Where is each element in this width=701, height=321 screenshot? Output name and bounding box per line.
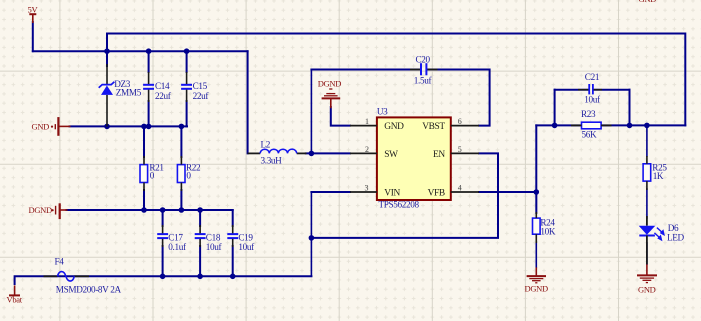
svg-text:0: 0: [186, 170, 191, 180]
svg-text:10uf: 10uf: [238, 242, 255, 252]
power port DGND (mid, earth style up): [322, 89, 341, 108]
wire: DZ3 top lead: [106, 51, 108, 66]
svg-text:C14: C14: [155, 81, 170, 91]
wire: R22 top lead: [180, 126, 182, 157]
wire: GND left rail: [70, 125, 188, 127]
power port GND (bottom right, earth style): [637, 264, 657, 282]
svg-text:5: 5: [458, 145, 462, 154]
wire: C15 top lead: [186, 51, 188, 72]
wire: C21 left vertical: [554, 90, 556, 126]
wire: DGND mid to pin1: [331, 107, 350, 126]
power port Vbat: [9, 285, 20, 295]
svg-text:56K: 56K: [582, 129, 597, 139]
node: 5V rail junctions: [104, 48, 110, 54]
svg-text:DGND: DGND: [318, 79, 342, 89]
svg-text:C20: C20: [416, 54, 431, 64]
pin 2 SW: [350, 152, 377, 154]
svg-text:ZMM5: ZMM5: [116, 88, 142, 98]
svg-text:SW: SW: [384, 150, 398, 160]
wire: R24 bottom lead: [535, 242, 537, 267]
capacitor C17: [157, 234, 168, 238]
wire: bottom Vbat rail: [15, 276, 312, 284]
wire: top output rail: [107, 34, 685, 126]
svg-text:GND: GND: [638, 284, 656, 294]
wire: C17 top lead: [162, 210, 164, 226]
node: VFB junction: [534, 189, 540, 195]
wire: R21 bottom lead: [143, 190, 145, 210]
svg-text:R23: R23: [581, 109, 596, 119]
wire: C17 bottom lead: [162, 246, 164, 276]
wire: C20 rail left: [311, 69, 420, 71]
power port 5V: [29, 14, 36, 23]
wire: C19 bottom lead: [232, 246, 234, 276]
svg-text:EN: EN: [433, 150, 445, 160]
resistor R25: [643, 164, 651, 181]
capacitor C19: [227, 234, 238, 238]
pin 5 EN: [451, 152, 479, 154]
capacitor C21: [589, 84, 593, 94]
svg-text:0: 0: [150, 170, 155, 180]
pin 3 VIN: [350, 191, 377, 193]
wire: C18 bottom lead: [199, 246, 201, 276]
svg-text:3: 3: [365, 183, 369, 192]
svg-text:MSMD200-8V 2A: MSMD200-8V 2A: [56, 285, 122, 295]
svg-text:DGND: DGND: [525, 284, 549, 294]
wire: C15 bottom lead: [186, 101, 188, 126]
pin 1 GND: [350, 125, 377, 127]
svg-text:Vbat: Vbat: [7, 295, 23, 305]
svg-text:VBST: VBST: [422, 122, 445, 132]
node: DGND rail junctions: [141, 207, 147, 213]
wire: 5V stem down: [32, 22, 34, 51]
wire: C21 rail left: [555, 89, 589, 91]
svg-text:GND: GND: [384, 122, 404, 132]
wire: C21 rail right: [594, 89, 630, 91]
wire: R24 top lead: [535, 192, 537, 212]
LED D6: [639, 216, 664, 264]
wire: R22 bottom lead: [180, 190, 182, 210]
fuse F4: [44, 275, 58, 277]
inductor L2: [248, 152, 261, 154]
resistor R22: [177, 165, 185, 183]
capacitor C20: [421, 63, 426, 75]
wire: R21 top lead: [143, 126, 145, 157]
svg-text:10uf: 10uf: [584, 94, 601, 104]
wire: C19 top lead: [232, 210, 234, 226]
wire: C14 top lead: [148, 51, 150, 72]
wire: FB vertical: [535, 125, 537, 213]
wire: C20 rail right: [428, 70, 490, 126]
node: SW junction: [309, 151, 315, 157]
capacitor C15: [181, 85, 192, 89]
wire: EN return horizontal: [311, 153, 498, 238]
node: R23 rail junctions: [552, 123, 558, 129]
svg-text:10uf: 10uf: [206, 242, 223, 252]
svg-text:22uf: 22uf: [155, 91, 172, 101]
svg-text:0.1uf: 0.1uf: [168, 242, 187, 252]
svg-text:3.3uH: 3.3uH: [261, 156, 283, 166]
svg-text:U3: U3: [377, 107, 388, 117]
svg-text:C17: C17: [168, 233, 183, 243]
capacitor C18: [195, 234, 206, 238]
node: bottom rail junctions: [160, 274, 166, 280]
wire: 5V rail corner down to L2: [247, 51, 249, 153]
svg-text:1.5uf: 1.5uf: [414, 75, 433, 85]
wire: LED bottom lead blue part: [646, 243, 648, 264]
wire: C18 top lead: [199, 210, 201, 226]
svg-text:10K: 10K: [540, 226, 555, 236]
resistor R21: [140, 165, 148, 183]
node: VIN/EN junction: [309, 235, 315, 241]
zener diode DZ3: [99, 64, 115, 126]
pin 4 VFB: [451, 191, 479, 193]
svg-text:LED: LED: [667, 232, 685, 242]
resistor R24: [533, 218, 541, 234]
wire: R25 to LED: [646, 189, 648, 218]
svg-text:C21: C21: [585, 72, 600, 82]
capacitor C14: [143, 85, 154, 89]
wire: R23 rail: [536, 124, 685, 126]
svg-text:C15: C15: [193, 81, 208, 91]
svg-text:2: 2: [365, 145, 369, 154]
svg-text:L2: L2: [261, 140, 271, 150]
svg-text:22uf: 22uf: [193, 91, 210, 101]
svg-text:F4: F4: [55, 257, 65, 267]
resistor R23: [582, 122, 602, 129]
svg-text:4: 4: [458, 183, 462, 192]
wire: VFB to divider: [479, 191, 536, 193]
svg-text:VIN: VIN: [384, 188, 400, 198]
wire: C21 right vertical: [629, 90, 631, 126]
svg-text:GND: GND: [32, 122, 50, 132]
svg-text:5V: 5V: [28, 5, 39, 15]
svg-text:DGND: DGND: [29, 205, 53, 215]
pin 6 VBST: [451, 125, 479, 127]
node: GND rail junctions: [104, 124, 110, 130]
svg-text:6: 6: [458, 117, 462, 126]
IC U3 TPS562208: [377, 117, 451, 200]
wire: R25 top lead: [646, 125, 648, 156]
power port GND (left, bar style): [55, 117, 70, 136]
svg-text:C19: C19: [238, 233, 253, 243]
wire: SW node to pin2: [306, 152, 350, 154]
wire: DGND left rail: [67, 209, 233, 211]
svg-text:GND: GND: [639, 0, 657, 4]
svg-text:1K: 1K: [653, 171, 664, 181]
svg-text:1: 1: [365, 117, 369, 126]
power port DGND (bottom, earth style): [527, 267, 546, 282]
svg-text:C18: C18: [206, 233, 221, 243]
wire: C14 bottom lead: [148, 101, 150, 126]
wire: 5V rail horizontal: [33, 50, 248, 52]
svg-text:VFB: VFB: [428, 188, 445, 198]
svg-text:TPS562208: TPS562208: [379, 200, 420, 210]
wire: C20 left vertical: [310, 70, 312, 154]
power port DGND (left, bar style): [56, 203, 68, 219]
